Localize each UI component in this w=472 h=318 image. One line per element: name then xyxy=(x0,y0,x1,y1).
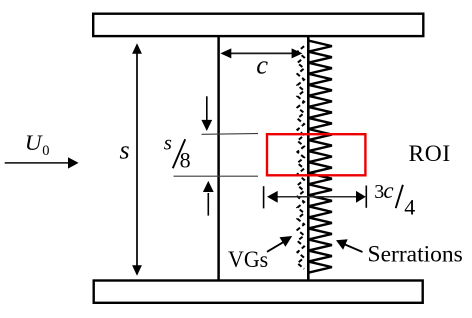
svg-text:s: s xyxy=(120,136,130,165)
svg-text:c: c xyxy=(256,50,268,80)
svg-text:VGs: VGs xyxy=(228,247,268,273)
svg-text:s: s xyxy=(164,130,172,154)
svg-text:8: 8 xyxy=(180,148,191,173)
svg-text:ROI: ROI xyxy=(409,141,451,167)
svg-text:c: c xyxy=(383,178,393,203)
svg-text:Serrations: Serrations xyxy=(368,241,463,267)
svg-text:4: 4 xyxy=(404,195,415,220)
svg-text:0: 0 xyxy=(42,143,49,159)
svg-text:U: U xyxy=(25,130,44,155)
